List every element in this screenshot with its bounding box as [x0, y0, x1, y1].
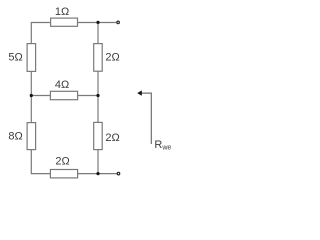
resistor 2Ω (bottom right vertical): [94, 122, 103, 149]
wire bottom-left corner: [31, 150, 50, 174]
wire bottom between 2Ω and node D: [78, 173, 98, 175]
wire top between 1Ω and node A: [78, 22, 99, 24]
svg-text:5Ω: 5Ω: [8, 51, 22, 63]
resistor 4Ω (middle horizontal): [50, 91, 77, 99]
svg-text:2Ω: 2Ω: [105, 52, 119, 64]
node C junction dot (middle left): [30, 94, 33, 97]
node D junction dot (bottom right): [96, 172, 99, 175]
resistor 8Ω (bottom left vertical): [27, 123, 35, 150]
svg-text:2Ω: 2Ω: [105, 132, 119, 144]
node A junction dot (top right): [96, 21, 99, 24]
wire node C to 4Ω: [31, 95, 50, 97]
wire node D to bottom terminal: [98, 173, 117, 175]
wire 5Ω to node C: [30, 71, 32, 95]
svg-text:4Ω: 4Ω: [55, 79, 69, 91]
wire top-left corner: [31, 23, 51, 44]
wire node C down to 8Ω: [30, 96, 32, 123]
wire 2Ω to node B: [97, 71, 99, 95]
svg-text:8Ω: 8Ω: [8, 131, 22, 143]
resistor 2Ω (bottom horizontal): [50, 170, 77, 178]
resistor 1Ω (top horizontal): [51, 18, 78, 26]
terminal (open circle, bottom right): [117, 172, 120, 175]
resistor 5Ω (top left vertical): [27, 44, 35, 72]
svg-text:2Ω: 2Ω: [55, 156, 69, 168]
terminal (open circle, top right): [117, 21, 120, 24]
wire 2Ω to node D: [97, 150, 99, 174]
svg-text:Rwe: Rwe: [154, 139, 171, 152]
wire node B down to 2Ω bottom-right: [97, 96, 99, 123]
svg-text:1Ω: 1Ω: [55, 6, 69, 18]
resistor 2Ω (top right vertical): [94, 44, 103, 72]
wire node A to top terminal: [98, 22, 117, 24]
wire node A down to 2Ω top-right: [97, 23, 99, 44]
arrow R_we (measurement arrow): [141, 93, 151, 144]
node B junction dot (middle right): [96, 94, 99, 97]
wire 4Ω to node B: [78, 95, 98, 97]
